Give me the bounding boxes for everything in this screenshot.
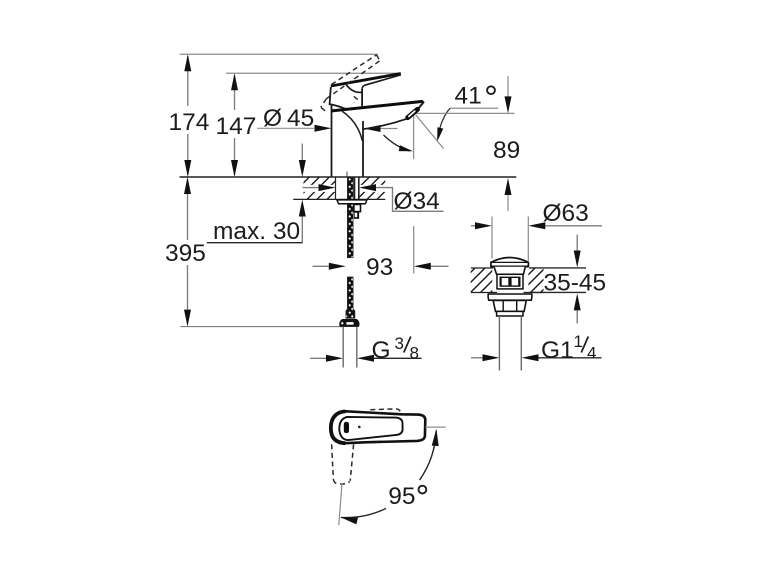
41 degree construction: vertical reference [413, 113, 415, 159]
35-45 boundary lines [529, 267, 586, 269]
drain deck hatching right [503, 260, 573, 300]
svg-text:G: G [372, 337, 391, 364]
hose tab 2 [354, 212, 359, 219]
svg-text:G1: G1 [541, 337, 574, 364]
dimension 93 [313, 265, 329, 267]
svg-text:4: 4 [587, 344, 596, 363]
dimension G1 1/4 [471, 357, 483, 359]
svg-text:max. 30: max. 30 [213, 218, 300, 245]
hose end nut G3/8 [340, 320, 359, 327]
svg-text:174: 174 [169, 109, 210, 136]
svg-text:95: 95 [388, 483, 415, 510]
faucet hole edges [335, 178, 337, 200]
Ø63 extension lines [491, 217, 493, 259]
drain deck hatching left [443, 260, 523, 300]
drain valve cap dome [491, 258, 529, 267]
89 top reference line [416, 112, 515, 114]
95 degree radial line right [425, 426, 445, 428]
spout top edge [332, 101, 423, 111]
svg-text:3: 3 [395, 334, 404, 353]
drain collar [497, 311, 523, 316]
raised handle dashed outline [321, 55, 380, 113]
handle lever blade top edge [331, 74, 401, 87]
dimension Ø34 with stepped leader [303, 187, 319, 189]
aerator band [408, 109, 418, 117]
extension line top (174 reference) [180, 53, 379, 55]
svg-text:395: 395 [165, 240, 206, 267]
svg-text:Ø34: Ø34 [394, 188, 440, 215]
drain body in deck with windows [497, 274, 523, 289]
drain tailpipe [498, 316, 500, 371]
top view: handle left round end thick stroke [331, 411, 346, 443]
drain washer below deck [488, 294, 532, 300]
top view: black logo bar [344, 422, 349, 433]
drain neck taper [494, 267, 525, 275]
dimension Ø63 [471, 225, 475, 227]
41 degree arc arrow [384, 135, 410, 151]
dimension 174 [187, 56, 189, 175]
extension line 147 reference [226, 72, 400, 74]
svg-text:93: 93 [366, 254, 393, 281]
dimension 147 [234, 75, 236, 175]
41 degree construction: outlet diagonal [416, 115, 444, 149]
drain deck top lines [471, 267, 493, 269]
dimension G3/8 [310, 357, 326, 359]
faucet internal waterway arc [342, 111, 362, 141]
mounting deck bottom line [293, 198, 385, 200]
svg-text:1: 1 [574, 332, 583, 351]
deck hatching right of faucet hole [326, 170, 406, 210]
threaded shank bars in hole [354, 178, 356, 200]
svg-text:41: 41 [455, 83, 482, 110]
svg-text:Ø63: Ø63 [543, 200, 589, 227]
drain deck bottom lines [471, 292, 497, 294]
dimension 395 [187, 179, 189, 324]
hose tab 1 [354, 204, 361, 211]
supply hose upper (braided) [347, 178, 353, 258]
washer under deck [337, 200, 367, 204]
faucet body left edge [331, 105, 333, 177]
drain mounting nut [493, 300, 526, 311]
mounting deck top surface line [180, 176, 517, 178]
top view: small dot [358, 426, 361, 429]
handle base right edge [361, 89, 363, 107]
top view: handle outer outline [331, 411, 425, 443]
svg-text:147: 147 [216, 113, 257, 140]
handle lever blade underside [362, 75, 401, 89]
top view: dashed rotated handle [332, 444, 354, 484]
drain cap brim line [491, 261, 528, 263]
svg-text:8: 8 [410, 344, 419, 363]
dimension 35-45 [576, 235, 578, 251]
top view: dashed raised position top [370, 409, 401, 414]
deck hatching left of faucet hole [276, 170, 366, 210]
faucet body right edge [362, 121, 364, 177]
cartridge base outline [330, 87, 346, 109]
G3/8 connector tube [342, 327, 344, 368]
95 degree arc with arrows [420, 431, 437, 481]
top view: handle inner outline [339, 417, 402, 440]
supply hose lower (braided) [346, 277, 355, 318]
spout nose and outlet face [419, 101, 424, 109]
395 bottom extension line [181, 326, 344, 328]
cartridge dome arc [346, 85, 362, 93]
hose line inside body [346, 172, 348, 177]
dimension 89 [507, 76, 509, 97]
spout underside curve [363, 119, 407, 129]
93 right extension line [413, 226, 415, 274]
svg-text:89: 89 [493, 137, 520, 164]
95 degree radial line bottom [339, 483, 342, 525]
